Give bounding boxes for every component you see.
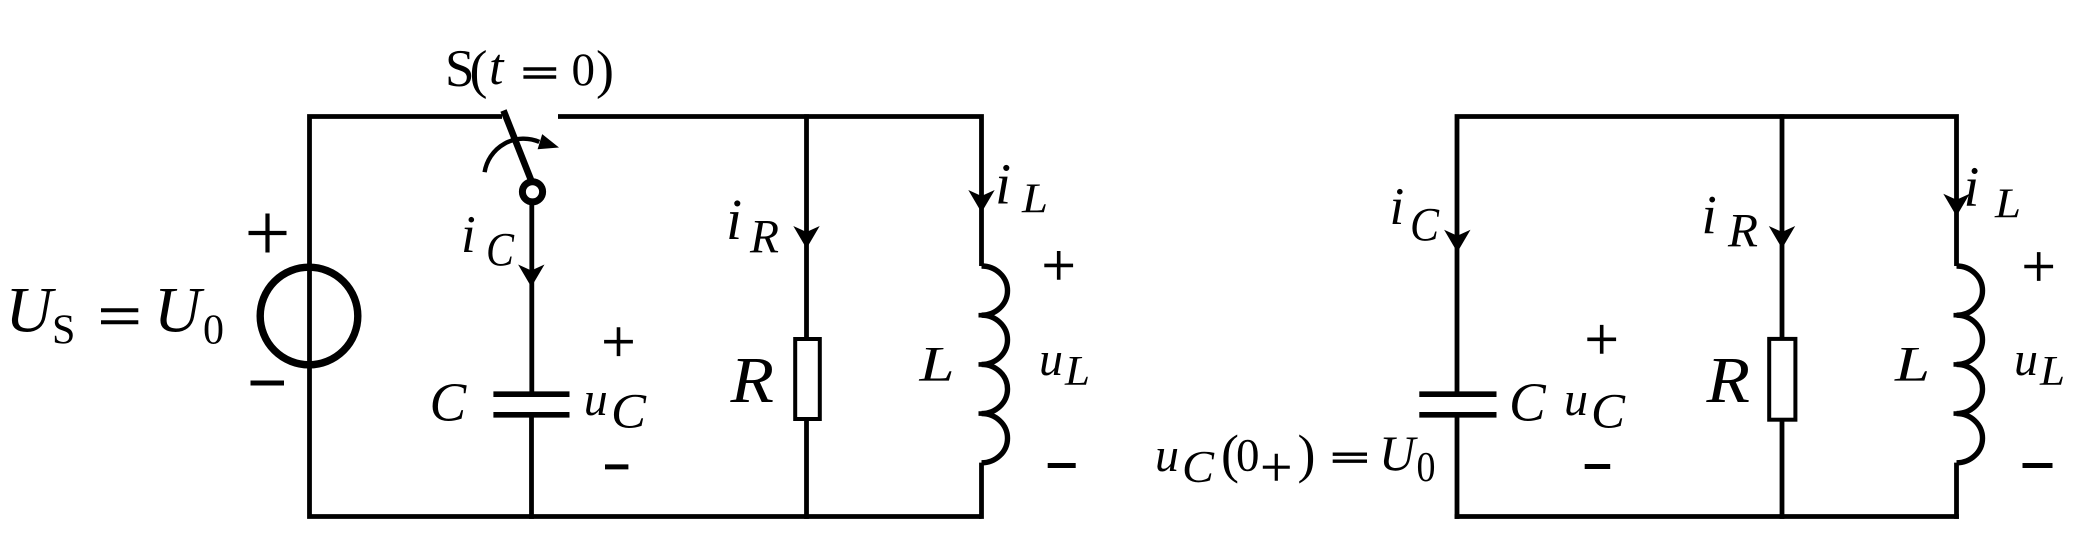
svg-text:t: t xyxy=(489,39,505,96)
svg-text:R: R xyxy=(1727,205,1758,258)
right circuit wires xyxy=(1455,114,1959,519)
svg-text:): ) xyxy=(1298,424,1316,484)
svg-text:R: R xyxy=(1705,344,1750,417)
wire top-right segment and inductor branch upper xyxy=(558,117,982,267)
switch arc arrowhead xyxy=(538,134,559,149)
svg-text:0: 0 xyxy=(1236,430,1260,482)
label uC right plus xyxy=(1587,325,1616,354)
wire right circuit top and sides xyxy=(1457,117,1957,392)
label uL left minus xyxy=(1048,463,1076,468)
wire inductor branch lower xyxy=(979,463,984,519)
label iL right xyxy=(1964,156,2022,228)
label uC right xyxy=(1564,373,1626,439)
svg-text:C: C xyxy=(1591,383,1626,439)
svg-text:L: L xyxy=(2039,349,2065,395)
svg-text:C: C xyxy=(611,383,647,439)
arrow iC left xyxy=(518,265,544,288)
svg-text:i: i xyxy=(461,206,476,264)
label iL left xyxy=(995,152,1048,223)
svg-text:i: i xyxy=(726,187,742,252)
label iC left xyxy=(461,206,515,277)
wire right bottom xyxy=(1455,514,1959,519)
svg-text:u: u xyxy=(584,373,608,426)
svg-text:0: 0 xyxy=(203,308,224,354)
wire right capacitor branch lower xyxy=(1455,416,1460,519)
arrow iR left xyxy=(793,226,819,249)
arrow iC right xyxy=(1444,230,1470,253)
svg-text:C: C xyxy=(1509,372,1547,433)
inductor L left cusp ticks xyxy=(979,315,993,413)
label iC right xyxy=(1390,178,1440,252)
arrow iR right xyxy=(1769,226,1795,249)
label US = U0 xyxy=(6,275,225,354)
source minus sign xyxy=(251,381,285,386)
label uL right xyxy=(2014,333,2065,395)
svg-text:R: R xyxy=(729,344,774,417)
svg-text:C: C xyxy=(1182,441,1215,492)
inductor L left (coil) xyxy=(982,266,1008,463)
wire resistor branch lower xyxy=(804,420,809,519)
svg-text:C: C xyxy=(1410,199,1440,252)
arrow iL right xyxy=(1943,194,1969,217)
svg-text:(: ( xyxy=(470,40,488,100)
wire right resistor branch lower xyxy=(1780,420,1785,519)
switch S blade xyxy=(504,111,532,183)
capacitor C left (plates) xyxy=(493,394,569,415)
svg-text:U: U xyxy=(1379,425,1418,481)
source plus sign xyxy=(249,214,287,253)
svg-text:): ) xyxy=(596,40,614,100)
wire right inductor branch lower xyxy=(1954,463,1959,519)
svg-text:C: C xyxy=(430,372,468,433)
svg-text:u: u xyxy=(2014,333,2038,386)
inductor L right cusp ticks xyxy=(1954,315,1968,413)
label uL right minus xyxy=(2023,463,2053,468)
svg-text:i: i xyxy=(995,152,1011,217)
label S(t = 0) xyxy=(445,39,614,100)
svg-text:L: L xyxy=(1894,336,1930,392)
wire left loop (top-left segment, left wire, bottom wire) xyxy=(310,117,982,517)
inductor L right (coil) xyxy=(1957,266,1983,463)
svg-text:L: L xyxy=(1064,349,1090,395)
svg-text:0: 0 xyxy=(1417,445,1436,491)
label uC right minus xyxy=(1585,464,1611,469)
label uL left plus xyxy=(1044,251,1073,280)
svg-text:i: i xyxy=(1964,156,1980,219)
wire capacitor branch lower xyxy=(529,416,534,519)
switch hinge ring xyxy=(522,182,542,202)
svg-text:L: L xyxy=(1994,182,2021,228)
label uC left minus xyxy=(605,464,628,469)
svg-text:U: U xyxy=(154,275,205,347)
svg-text:U: U xyxy=(6,275,57,347)
svg-text:L: L xyxy=(918,336,954,392)
arrow iL left xyxy=(968,190,994,213)
capacitor C right (plates) xyxy=(1419,394,1496,415)
label uC(0+) = U0 xyxy=(1155,424,1436,492)
wire resistor branch upper xyxy=(804,114,809,338)
wire right resistor branch upper xyxy=(1780,114,1785,338)
label uC left plus xyxy=(604,327,633,356)
svg-text:u: u xyxy=(1155,429,1179,482)
resistor R right (box) xyxy=(1769,339,1795,420)
resistor R left (box) xyxy=(795,339,820,419)
label uL right plus xyxy=(2024,252,2053,281)
svg-text:0: 0 xyxy=(572,44,596,96)
svg-text:L: L xyxy=(1021,177,1048,223)
svg-text:C: C xyxy=(486,224,515,277)
label iR left xyxy=(726,187,779,264)
switch opening arc xyxy=(485,139,540,172)
label uC left xyxy=(584,373,647,439)
wire capacitor branch upper xyxy=(529,200,534,392)
svg-text:u: u xyxy=(1564,373,1588,426)
svg-text:u: u xyxy=(1039,333,1063,386)
svg-text:i: i xyxy=(1702,184,1717,245)
svg-text:R: R xyxy=(749,211,779,264)
label uL left xyxy=(1039,333,1090,395)
voltage source US (circle) xyxy=(260,267,358,365)
label iR right xyxy=(1702,184,1759,258)
svg-text:i: i xyxy=(1390,178,1405,236)
svg-text:S: S xyxy=(52,308,75,354)
